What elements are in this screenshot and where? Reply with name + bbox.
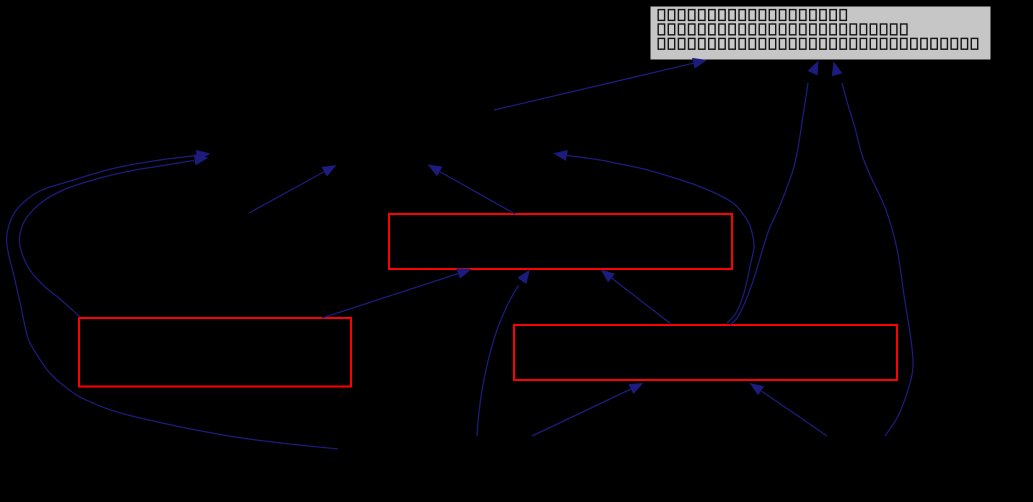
edge M1->Tmid <box>249 165 337 213</box>
edge boxB->T1 (inner sweep) <box>19 154 208 317</box>
node boxA (red truncated node) <box>389 214 732 269</box>
edge N2->grayNode <box>832 61 913 436</box>
node boxC (red truncated node) <box>514 325 897 380</box>
node boxB (red truncated node) <box>79 318 351 387</box>
edge boxA->T2 <box>428 165 516 215</box>
edge T4->grayNode <box>494 58 707 110</box>
edge N2->boxC <box>750 383 828 436</box>
edge boxC->boxA <box>601 270 672 325</box>
edge N1->T1 (outer sweep) <box>7 150 339 449</box>
edge boxB->boxA <box>322 268 472 318</box>
edge N1->boxC <box>532 383 644 436</box>
edge boxC->grayNode <box>730 61 819 326</box>
edge N1->boxA <box>477 270 530 437</box>
edge boxC->T3 <box>553 150 754 323</box>
node: current function (gray filled box with placeholder glyphs) <box>650 6 991 60</box>
